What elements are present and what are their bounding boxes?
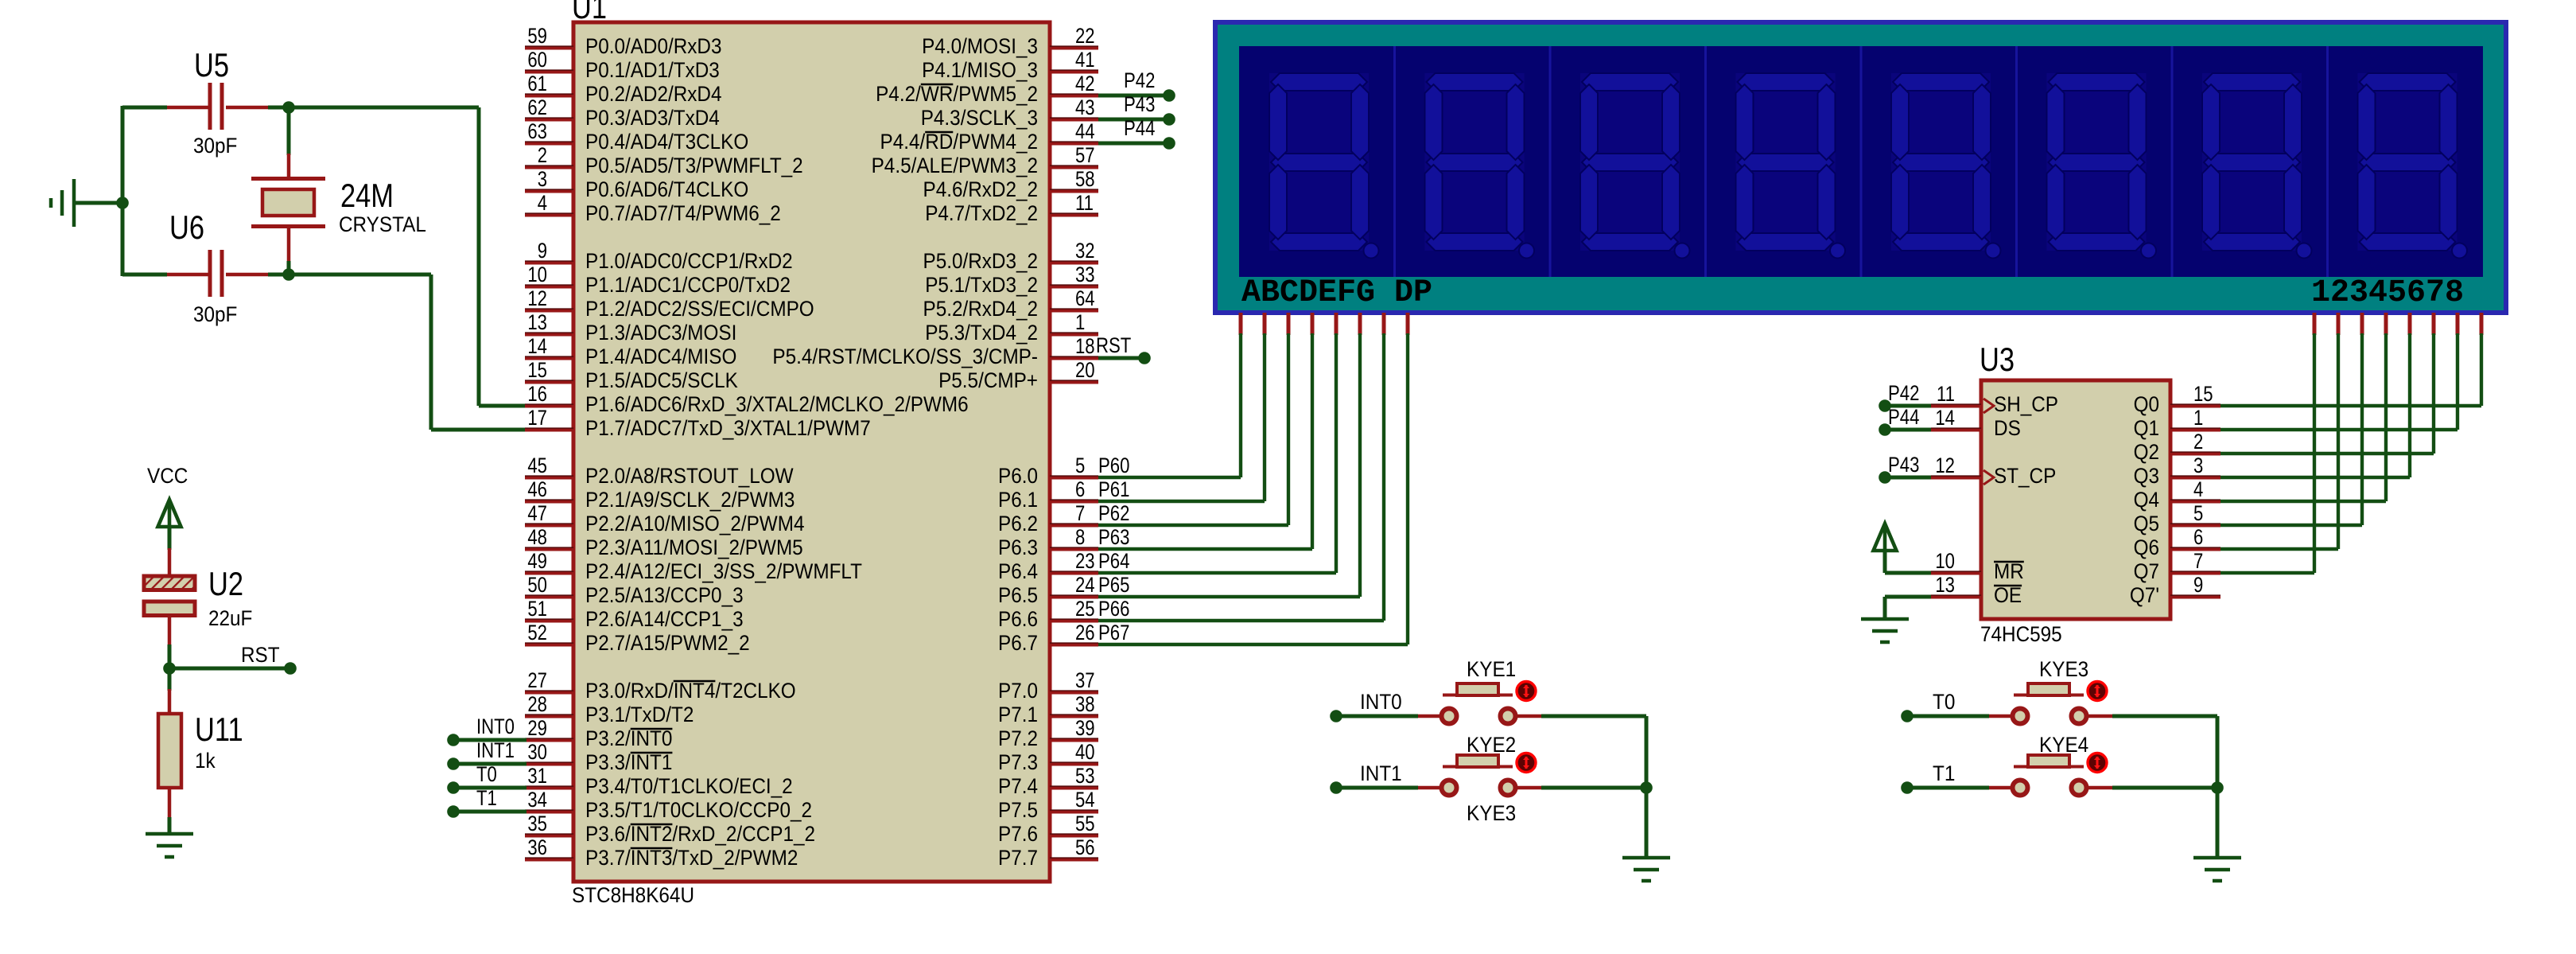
- svg-text:P3.2/INT0: P3.2/INT0: [585, 726, 672, 750]
- svg-text:7: 7: [1075, 501, 1085, 525]
- display digit 4: [1706, 46, 1846, 277]
- svg-text:5: 5: [2193, 501, 2203, 525]
- svg-text:24M: 24M: [340, 177, 394, 214]
- svg-text:P4.4/RD/PWM4_2: P4.4/RD/PWM4_2: [880, 130, 1039, 154]
- svg-text:KYE3: KYE3: [2039, 657, 2088, 681]
- svg-text:26: 26: [1075, 621, 1095, 644]
- svg-text:P0.2/AD2/RxD4: P0.2/AD2/RxD4: [585, 82, 722, 106]
- svg-text:46: 46: [527, 477, 547, 501]
- pin 14 DS (U3 left): [1931, 406, 2021, 440]
- svg-text:INT0: INT0: [1360, 690, 1402, 714]
- pin 6 P6.1 (U1 right): [998, 477, 1098, 512]
- pin 3 (display) + wire to U3 Q5: [2220, 313, 2362, 525]
- wire net INT1 (KYE2): [1336, 786, 1418, 790]
- wire RST junction to U11: [168, 668, 172, 691]
- svg-text:62: 62: [527, 95, 547, 119]
- svg-text:P6.3: P6.3: [998, 535, 1038, 559]
- svg-text:ST_CP: ST_CP: [1994, 464, 2056, 488]
- svg-text:P4.0/MOSI_3: P4.0/MOSI_3: [922, 34, 1038, 58]
- svg-text:12: 12: [1935, 454, 1955, 477]
- pin 56 P7.7 (U1 right): [998, 835, 1098, 870]
- svg-text:P3.0/RxD/INT4/T2CLKO: P3.0/RxD/INT4/T2CLKO: [585, 679, 796, 703]
- svg-text:P0.6/AD6/T4CLKO: P0.6/AD6/T4CLKO: [585, 177, 748, 201]
- pin 1 (display) + wire to U3 Q7: [2220, 313, 2314, 573]
- pin 38 P7.1 (U1 right): [998, 692, 1098, 726]
- wire ground rail vertical (right buttons): [2216, 716, 2220, 858]
- button KYE1: [1418, 682, 1541, 724]
- svg-text:P2.2/A10/MISO_2/PWM4: P2.2/A10/MISO_2/PWM4: [585, 512, 805, 535]
- display digit 6: [2017, 46, 2157, 277]
- svg-text:KYE4: KYE4: [2039, 733, 2088, 757]
- svg-text:7: 7: [2193, 549, 2203, 573]
- svg-text:P1.6/ADC6/RxD_3/XTAL2/MCLKO_2/: P1.6/ADC6/RxD_3/XTAL2/MCLKO_2/PWM6: [585, 392, 969, 416]
- node P42 wire-end dot (U3): [1879, 399, 1891, 412]
- pin 15 Q0 (U3 right): [2134, 382, 2220, 416]
- node INT1 wire-end dot (U1): [447, 757, 460, 770]
- svg-text:P1.1/ADC1/CCP0/TxD2: P1.1/ADC1/CCP0/TxD2: [585, 273, 791, 297]
- svg-text:8: 8: [1075, 525, 1085, 549]
- svg-text:55: 55: [1075, 812, 1095, 835]
- node P44 wire-end dot: [1163, 137, 1175, 150]
- svg-text:P42: P42: [1124, 68, 1155, 92]
- svg-text:P5.3/TxD4_2: P5.3/TxD4_2: [925, 321, 1038, 345]
- svg-text:U6: U6: [169, 208, 204, 246]
- pin 5 Q5 (U3 right): [2134, 501, 2220, 535]
- svg-text:P6.6: P6.6: [998, 607, 1038, 631]
- pin 61 P0.2 (U1 left): [525, 72, 722, 106]
- svg-text:P1.2/ADC2/SS/ECI/CMPO: P1.2/ADC2/SS/ECI/CMPO: [585, 297, 814, 321]
- pin 3 Q3 (U3 right): [2134, 454, 2220, 488]
- pin 43 P4.3 (U1 right): [921, 95, 1098, 130]
- svg-text:P63: P63: [1098, 525, 1129, 549]
- power VCC symbol (U3 MR): [1874, 524, 1897, 551]
- svg-text:10: 10: [527, 263, 547, 286]
- wire KYE1 to ground rail: [1541, 715, 1646, 718]
- wire KYE4 to ground rail: [2112, 786, 2217, 790]
- svg-text:36: 36: [527, 835, 547, 859]
- svg-text:10: 10: [1935, 549, 1955, 573]
- capacitor U6: [167, 250, 268, 297]
- svg-text:63: 63: [527, 119, 547, 143]
- svg-text:54: 54: [1075, 788, 1095, 812]
- wire U11 to ground: [168, 817, 172, 834]
- pin 7 (display) + wire to U3 Q1: [2220, 313, 2457, 430]
- wire net P44 (U3): [1885, 428, 1931, 432]
- svg-text:9: 9: [2193, 573, 2203, 597]
- svg-text:T1: T1: [476, 786, 497, 810]
- svg-text:P1.0/ADC0/CCP1/RxD2: P1.0/ADC0/CCP1/RxD2: [585, 249, 793, 273]
- svg-text:P7.0: P7.0: [998, 679, 1038, 703]
- wire net INT0 (U1): [453, 738, 526, 742]
- node T0 wire-end dot (KYE3): [1901, 710, 1914, 722]
- svg-text:49: 49: [527, 549, 547, 573]
- pin 45 P2.0 (U1 left): [525, 454, 794, 488]
- svg-text:P0.7/AD7/T4/PWM6_2: P0.7/AD7/T4/PWM6_2: [585, 201, 781, 225]
- node T1 wire-end dot (U1): [447, 805, 460, 818]
- pin DP (display) + wire to P6.7: [1098, 313, 1408, 644]
- pin 18 P5.4 (U1 right): [772, 334, 1098, 368]
- pin 17 P1.7 (U1 left): [525, 406, 871, 440]
- svg-text:RST: RST: [241, 643, 280, 667]
- wire ground to rail: [74, 201, 122, 205]
- wire net INT0 (KYE1): [1336, 715, 1418, 718]
- svg-text:38: 38: [1075, 692, 1095, 716]
- svg-text:P43: P43: [1888, 453, 1919, 477]
- svg-text:P6.1: P6.1: [998, 488, 1038, 512]
- pin 55 P7.6 (U1 right): [998, 812, 1098, 846]
- svg-text:OE: OE: [1994, 583, 2022, 607]
- svg-text:17: 17: [527, 406, 547, 430]
- svg-text:Q4: Q4: [2134, 488, 2159, 512]
- display inner panel: [1239, 46, 2483, 277]
- svg-text:P2.5/A13/CCP0_3: P2.5/A13/CCP0_3: [585, 583, 744, 607]
- svg-text:P6.0: P6.0: [998, 464, 1038, 488]
- svg-text:RST: RST: [1096, 333, 1131, 357]
- svg-text:INT1: INT1: [476, 738, 515, 762]
- wire XTAL1 net to U1 pin 17: [289, 275, 526, 430]
- svg-text:P4.3/SCLK_3: P4.3/SCLK_3: [921, 106, 1038, 130]
- svg-text:P67: P67: [1098, 621, 1129, 644]
- svg-text:VCC: VCC: [147, 464, 188, 488]
- svg-text:50: 50: [527, 573, 547, 597]
- crystal X1 24M: [251, 107, 325, 275]
- svg-text:42: 42: [1075, 72, 1095, 95]
- svg-text:P7.1: P7.1: [998, 703, 1038, 726]
- wire net T0 (KYE3): [1907, 715, 1989, 718]
- svg-text:28: 28: [527, 692, 547, 716]
- svg-text:P43: P43: [1124, 92, 1155, 116]
- display digit 7: [2172, 46, 2312, 277]
- pin 7 Q7 (U3 right): [2134, 549, 2220, 583]
- svg-text:KYE2: KYE2: [1467, 733, 1516, 757]
- capacitor U2 22uF (electrolytic): [144, 548, 195, 646]
- wire VCC stem: [168, 527, 172, 550]
- svg-text:34: 34: [527, 788, 547, 812]
- svg-text:P7.7: P7.7: [998, 846, 1038, 870]
- pin 4 P0.7 (U1 left): [525, 191, 781, 225]
- ground GND3 (U3 OE): [1861, 619, 1909, 642]
- node P42 wire-end dot: [1163, 89, 1175, 102]
- svg-text:27: 27: [527, 668, 547, 692]
- wire net P44 (U1): [1098, 142, 1168, 146]
- pin 12 ST_CP (U3 left): [1931, 454, 2056, 488]
- svg-text:37: 37: [1075, 668, 1095, 692]
- svg-text:43: 43: [1075, 95, 1095, 119]
- svg-text:13: 13: [527, 310, 547, 334]
- pin 36 P3.7 (U1 left): [525, 835, 798, 870]
- wire RST net: [169, 667, 290, 671]
- pin 60 P0.1 (U1 left): [525, 48, 720, 82]
- wire U5 to XTAL2 junction: [268, 106, 291, 110]
- button KYE3: [1989, 682, 2112, 724]
- svg-text:53: 53: [1075, 764, 1095, 788]
- pin 49 P2.4 (U1 left): [525, 549, 862, 583]
- wire top rail left (to U5): [122, 106, 167, 110]
- svg-text:33: 33: [1075, 263, 1095, 286]
- svg-text:T0: T0: [476, 762, 497, 786]
- pin 57 P4.5 (U1 right): [872, 143, 1098, 177]
- svg-text:14: 14: [1935, 406, 1955, 430]
- svg-text:P0.5/AD5/T3/PWMFLT_2: P0.5/AD5/T3/PWMFLT_2: [585, 154, 803, 177]
- svg-text:STC8H8K64U: STC8H8K64U: [572, 883, 694, 907]
- svg-text:25: 25: [1075, 597, 1095, 621]
- svg-text:INT0: INT0: [476, 715, 515, 738]
- wire bottom rail left (to U6): [122, 273, 167, 277]
- svg-text:11: 11: [1937, 382, 1955, 406]
- pin 33 P5.1 (U1 right): [925, 263, 1098, 297]
- pin 15 P1.5 (U1 left): [525, 358, 738, 392]
- wire net P43 (U1): [1098, 118, 1168, 122]
- pin 22 P4.0 (U1 right): [922, 24, 1098, 58]
- svg-text:Q5: Q5: [2134, 512, 2159, 535]
- pin 51 P2.6 (U1 left): [525, 597, 744, 631]
- svg-text:P2.4/A12/ECI_3/SS_2/PWMFLT: P2.4/A12/ECI_3/SS_2/PWMFLT: [585, 559, 862, 583]
- svg-text:18: 18: [1075, 334, 1095, 358]
- node P43 wire-end dot: [1163, 113, 1175, 126]
- svg-text:57: 57: [1075, 143, 1095, 167]
- wire net T1 (KYE4): [1907, 786, 1989, 790]
- pin 4 Q4 (U3 right): [2134, 477, 2220, 512]
- svg-text:P5.5/CMP+: P5.5/CMP+: [938, 368, 1038, 392]
- svg-text:35: 35: [527, 812, 547, 835]
- pin 5 P6.0 (U1 right): [998, 454, 1098, 488]
- wire U2 to RST junction: [168, 644, 172, 670]
- pin 52 P2.7 (U1 left): [525, 621, 750, 655]
- pin E (display) + wire to P6.4: [1098, 313, 1336, 573]
- svg-text:P1.4/ADC4/MISO: P1.4/ADC4/MISO: [585, 345, 736, 368]
- node RST wire-end dot (U1): [1138, 352, 1151, 364]
- svg-text:45: 45: [527, 454, 547, 477]
- ic U1 body (STC8H8K64U): [573, 22, 1050, 882]
- pin D (display) + wire to P6.3: [1098, 313, 1312, 549]
- svg-text:15: 15: [2193, 382, 2213, 406]
- junction XTAL1 node: [282, 268, 295, 281]
- pin 44 P4.4 (U1 right): [880, 119, 1099, 154]
- svg-text:P6.7: P6.7: [998, 631, 1038, 655]
- svg-text:9: 9: [538, 239, 547, 263]
- svg-text:U5: U5: [194, 46, 229, 84]
- pin 50 P2.5 (U1 left): [525, 573, 744, 607]
- ground GND1 (left of crystal): [51, 179, 74, 227]
- svg-text:24: 24: [1075, 573, 1095, 597]
- ic U3 body (74HC595): [1981, 380, 2170, 619]
- svg-text:1: 1: [2193, 406, 2203, 430]
- svg-text:P0.4/AD4/T3CLKO: P0.4/AD4/T3CLKO: [585, 130, 748, 154]
- svg-text:14: 14: [527, 334, 547, 358]
- pin 39 P7.2 (U1 right): [998, 716, 1098, 750]
- svg-text:P42: P42: [1888, 381, 1919, 405]
- svg-text:P5.1/TxD3_2: P5.1/TxD3_2: [925, 273, 1038, 297]
- svg-text:P6.5: P6.5: [998, 583, 1038, 607]
- svg-text:3: 3: [538, 167, 547, 191]
- pin 48 P2.3 (U1 left): [525, 525, 803, 559]
- junction RST node: [163, 662, 176, 675]
- pin 3 P0.6 (U1 left): [525, 167, 748, 201]
- junction ground rail (right buttons): [2211, 781, 2224, 794]
- svg-text:Q2: Q2: [2134, 440, 2159, 464]
- svg-text:KYE3: KYE3: [1467, 801, 1516, 825]
- pin 25 P6.6 (U1 right): [998, 597, 1098, 631]
- wire left rail vertical: [121, 106, 125, 276]
- svg-text:U1: U1: [572, 0, 607, 25]
- svg-text:P3.3/INT1: P3.3/INT1: [585, 750, 672, 774]
- pin 2 (display) + wire to U3 Q6: [2220, 313, 2338, 549]
- pin A (display) + wire to P6.0: [1098, 313, 1241, 477]
- svg-text:P4.1/MISO_3: P4.1/MISO_3: [922, 58, 1038, 82]
- node RST wire-end dot: [284, 662, 297, 675]
- pin 64 P5.2 (U1 right): [923, 286, 1099, 321]
- svg-text:P5.2/RxD4_2: P5.2/RxD4_2: [923, 297, 1039, 321]
- pin 13 OE (U3 left): [1931, 573, 2022, 607]
- svg-text:64: 64: [1075, 286, 1095, 310]
- power VCC symbol: [158, 500, 181, 527]
- svg-text:4: 4: [538, 191, 547, 215]
- svg-text:16: 16: [527, 382, 547, 406]
- svg-text:74HC595: 74HC595: [1980, 622, 2062, 646]
- pin F (display) + wire to P6.5: [1098, 313, 1360, 597]
- wire net INT1 (U1): [453, 762, 526, 766]
- svg-text:P1.3/ADC3/MOSI: P1.3/ADC3/MOSI: [585, 321, 736, 345]
- svg-text:P66: P66: [1098, 597, 1129, 621]
- svg-text:22uF: 22uF: [208, 606, 252, 630]
- pin 24 P6.5 (U1 right): [998, 573, 1098, 607]
- pin 28 P3.1 (U1 left): [525, 692, 694, 726]
- wire KYE3 to ground rail: [2112, 715, 2217, 718]
- junction ground rail (left buttons): [1640, 781, 1653, 794]
- svg-text:P7.3: P7.3: [998, 750, 1038, 774]
- svg-text:P0.3/AD3/TxD4: P0.3/AD3/TxD4: [585, 106, 720, 130]
- pin G (display) + wire to P6.6: [1098, 313, 1384, 621]
- pin 13 P1.3 (U1 left): [525, 310, 736, 345]
- display digit 5: [1861, 46, 2001, 277]
- pin 40 P7.3 (U1 right): [998, 740, 1098, 774]
- wire ground rail vertical (left buttons): [1645, 716, 1649, 858]
- pin 10 P1.1 (U1 left): [525, 263, 791, 297]
- wire VCC to MR pin: [1885, 551, 1931, 573]
- svg-text:15: 15: [527, 358, 547, 382]
- wire OE to ground: [1885, 597, 1931, 619]
- pin 6 Q6 (U3 right): [2134, 525, 2220, 559]
- pin 8 (display) + wire to U3 Q0: [2220, 313, 2481, 406]
- pin 2 Q2 (U3 right): [2134, 430, 2220, 464]
- svg-text:40: 40: [1075, 740, 1095, 764]
- svg-text:30pF: 30pF: [193, 134, 237, 158]
- pin 63 P0.4 (U1 left): [525, 119, 748, 154]
- svg-text:P5.0/RxD3_2: P5.0/RxD3_2: [923, 249, 1039, 273]
- svg-text:P3.4/T0/T1CLKO/ECI_2: P3.4/T0/T1CLKO/ECI_2: [585, 774, 793, 798]
- wire XTAL2 net to U1 pin 16: [289, 107, 526, 406]
- pin 20 P5.5 (U1 right): [938, 358, 1098, 392]
- svg-text:13: 13: [1935, 573, 1955, 597]
- node T0 wire-end dot (U1): [447, 781, 460, 794]
- svg-text:39: 39: [1075, 716, 1095, 740]
- svg-text:52: 52: [527, 621, 547, 644]
- svg-text:P44: P44: [1888, 405, 1919, 429]
- svg-text:Q1: Q1: [2134, 416, 2159, 440]
- svg-text:P44: P44: [1124, 116, 1155, 140]
- svg-text:P60: P60: [1098, 454, 1129, 477]
- resistor U11 1k: [158, 689, 181, 819]
- node P43 wire-end dot (U3): [1879, 471, 1891, 484]
- ground GND5 (right buttons): [2193, 858, 2241, 881]
- display digit 2: [1395, 46, 1535, 277]
- svg-text:U2: U2: [208, 565, 243, 602]
- svg-text:23: 23: [1075, 549, 1095, 573]
- pin 46 P2.1 (U1 left): [525, 477, 795, 512]
- pin 47 P2.2 (U1 left): [525, 501, 805, 535]
- svg-text:DS: DS: [1994, 416, 2021, 440]
- pin C (display) + wire to P6.2: [1098, 313, 1288, 525]
- wire net P43 (U3): [1885, 476, 1931, 480]
- svg-text:ABCDEFG DP: ABCDEFG DP: [1241, 275, 1432, 311]
- svg-text:41: 41: [1075, 48, 1095, 72]
- pin 11 P4.7 (U1 right): [925, 191, 1098, 225]
- node INT0 wire-end dot (U1): [447, 734, 460, 746]
- svg-text:P62: P62: [1098, 501, 1129, 525]
- pin 5 (display) + wire to U3 Q3: [2220, 313, 2410, 477]
- svg-text:CRYSTAL: CRYSTAL: [339, 212, 426, 236]
- display DS1 8-digit 7-segment outer frame: [1215, 22, 2506, 313]
- svg-text:INT1: INT1: [1360, 761, 1402, 785]
- svg-text:P4.7/TxD2_2: P4.7/TxD2_2: [925, 201, 1038, 225]
- svg-text:1: 1: [1075, 310, 1085, 334]
- svg-text:P2.7/A15/PWM2_2: P2.7/A15/PWM2_2: [585, 631, 750, 655]
- pin 14 P1.4 (U1 left): [525, 334, 736, 368]
- svg-text:P4.2/WR/PWM5_2: P4.2/WR/PWM5_2: [876, 82, 1038, 106]
- pin 1 Q1 (U3 right): [2134, 406, 2220, 440]
- pin 59 P0.0 (U1 left): [525, 24, 722, 58]
- pin B (display) + wire to P6.1: [1098, 313, 1265, 501]
- svg-text:59: 59: [527, 24, 547, 48]
- button KYE4: [1989, 753, 2112, 796]
- svg-text:P5.4/RST/MCLKO/SS_3/CMP-: P5.4/RST/MCLKO/SS_3/CMP-: [772, 345, 1038, 368]
- node INT1 wire-end dot (KYE2): [1330, 781, 1342, 794]
- svg-text:P3.5/T1/T0CLKO/CCP0_2: P3.5/T1/T0CLKO/CCP0_2: [585, 798, 812, 822]
- svg-text:48: 48: [527, 525, 547, 549]
- pin 12 P1.2 (U1 left): [525, 286, 814, 321]
- svg-text:6: 6: [2193, 525, 2203, 549]
- svg-text:51: 51: [527, 597, 547, 621]
- svg-text:P0.0/AD0/RxD3: P0.0/AD0/RxD3: [585, 34, 722, 58]
- svg-text:U11: U11: [195, 711, 243, 748]
- svg-text:56: 56: [1075, 835, 1095, 859]
- wire net P42 (U1): [1098, 94, 1168, 98]
- svg-text:T0: T0: [1933, 690, 1955, 714]
- svg-text:P65: P65: [1098, 573, 1129, 597]
- button KYE2: [1418, 753, 1541, 796]
- svg-text:1k: 1k: [195, 749, 216, 773]
- pin 35 P3.6 (U1 left): [525, 812, 815, 846]
- pin 29 P3.2 (U1 left): [525, 716, 672, 750]
- junction left rail: [116, 197, 129, 209]
- svg-text:61: 61: [527, 72, 547, 95]
- pin 10 MR (U3 left): [1931, 549, 2024, 583]
- svg-text:SH_CP: SH_CP: [1994, 392, 2058, 416]
- svg-text:P6.4: P6.4: [998, 559, 1038, 583]
- svg-text:31: 31: [527, 764, 547, 788]
- pin 62 P0.3 (U1 left): [525, 95, 720, 130]
- pin 16 P1.6 (U1 left): [525, 382, 969, 416]
- wire net T0 (U1): [453, 786, 526, 790]
- svg-text:Q6: Q6: [2134, 535, 2159, 559]
- svg-text:2: 2: [538, 143, 547, 167]
- svg-text:P1.5/ADC5/SCLK: P1.5/ADC5/SCLK: [585, 368, 738, 392]
- svg-text:P61: P61: [1098, 477, 1129, 501]
- svg-text:KYE1: KYE1: [1467, 657, 1516, 681]
- svg-text:Q0: Q0: [2134, 392, 2159, 416]
- svg-text:29: 29: [527, 716, 547, 740]
- svg-text:P4.6/RxD2_2: P4.6/RxD2_2: [923, 177, 1039, 201]
